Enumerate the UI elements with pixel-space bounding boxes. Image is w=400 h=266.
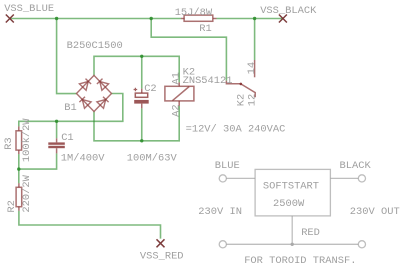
svg-text:ZNS54121: ZNS54121 — [183, 75, 233, 87]
svg-text:=12V/ 30A 240VAC: =12V/ 30A 240VAC — [186, 123, 286, 135]
wire bridge AC2 to RC snubber rail — [19, 94, 123, 127]
svg-text:A2: A2 — [170, 104, 182, 116]
wire C1 bottom to R3/R2 junction — [19, 153, 57, 169]
junction at R1 left branch — [150, 17, 153, 20]
svg-text:R1: R1 — [199, 23, 211, 35]
diode B1 lower-right — [97, 97, 109, 109]
capacitor C1 — [48, 142, 65, 148]
svg-text:14: 14 — [246, 62, 258, 74]
pad circle bottom-right — [358, 241, 365, 248]
wire C1 top stem — [56, 121, 58, 138]
block wire blue to box — [226, 177, 255, 179]
wire C2 bottom stem — [141, 108, 143, 140]
wire junction to R2 top — [18, 169, 20, 183]
pad circle black — [358, 175, 365, 182]
supply symbol VSS_BLACK — [279, 15, 287, 23]
supply symbol VSS_BLUE — [6, 15, 14, 23]
wire C2 top stem — [141, 56, 143, 88]
junction C2 top — [140, 55, 143, 58]
bridge rectifier B1 frame — [77, 75, 112, 111]
wire left drop to bridge AC1 — [57, 19, 77, 94]
wire bridge plus to relay coil A1 — [94, 56, 179, 82]
block wire bottom — [226, 243, 358, 245]
relay contact K2 — [226, 60, 255, 97]
diode B1 upper-left — [79, 79, 91, 91]
block wire box to black — [330, 177, 358, 179]
block wire red drop — [291, 216, 293, 244]
svg-text:B1: B1 — [64, 102, 76, 114]
svg-text:C1: C1 — [61, 132, 73, 144]
svg-text:K2: K2 — [236, 94, 248, 106]
relay coil K2 — [165, 82, 194, 106]
resistor R3 — [16, 126, 22, 154]
wire top net from VSS_BLUE to R1 — [10, 18, 181, 20]
junction C2 bottom — [140, 139, 143, 142]
svg-text:FOR TOROID TRANSF.: FOR TOROID TRANSF. — [244, 255, 356, 266]
resistor R2 — [16, 183, 22, 210]
svg-text:RED: RED — [301, 227, 320, 239]
junction at VSS_BLACK branch — [253, 17, 256, 20]
capacitor C1 pins — [56, 138, 58, 153]
pad circle bottom-left — [219, 241, 226, 248]
capacitor C2 (polarized) — [134, 88, 149, 109]
wire R3 bottom to junction — [18, 154, 20, 169]
junction C1 top — [55, 120, 58, 123]
svg-text:220/2W: 220/2W — [21, 174, 33, 212]
wire branch to contact pin 11 — [151, 19, 226, 81]
resistor R1 — [181, 15, 217, 21]
svg-text:230V IN: 230V IN — [198, 206, 242, 218]
svg-text:B250C1500: B250C1500 — [67, 40, 123, 52]
block junction red — [291, 243, 294, 246]
svg-text:BLACK: BLACK — [340, 160, 372, 172]
svg-text:C2: C2 — [144, 83, 156, 95]
svg-text:SOFTSTART: SOFTSTART — [263, 181, 319, 193]
svg-text:12: 12 — [246, 94, 258, 106]
pad circle blue — [219, 175, 226, 182]
wire R2 bottom to VSS_RED — [19, 211, 161, 239]
svg-text:A1: A1 — [170, 72, 182, 84]
svg-text:2500W: 2500W — [273, 198, 305, 210]
wire R1 right to VSS_BLACK — [217, 18, 284, 20]
svg-text:VSS_BLACK: VSS_BLACK — [260, 5, 317, 17]
wire branch to contact pin 14 — [254, 19, 256, 61]
svg-text:100k/2W: 100k/2W — [21, 118, 33, 162]
svg-text:BLUE: BLUE — [215, 160, 240, 172]
svg-text:15J/8W: 15J/8W — [175, 7, 213, 19]
svg-text:R3: R3 — [3, 137, 15, 149]
svg-text:R2: R2 — [6, 200, 18, 212]
softstart block box — [255, 169, 330, 216]
junction top-left — [55, 17, 58, 20]
supply symbol VSS_RED — [157, 239, 165, 247]
svg-text:100M/63V: 100M/63V — [127, 152, 178, 164]
svg-text:VSS_BLUE: VSS_BLUE — [4, 3, 54, 15]
svg-text:VSS_RED: VSS_RED — [140, 250, 184, 262]
svg-text:230V OUT: 230V OUT — [350, 206, 400, 218]
contact pivot — [240, 83, 243, 86]
svg-text:1M/400V: 1M/400V — [61, 152, 105, 164]
diode B1 upper-right — [97, 79, 109, 91]
diode B1 lower-left — [79, 97, 91, 109]
wire bridge minus to relay coil A2 — [94, 106, 179, 141]
junction R3/R2/C1 — [17, 167, 20, 170]
